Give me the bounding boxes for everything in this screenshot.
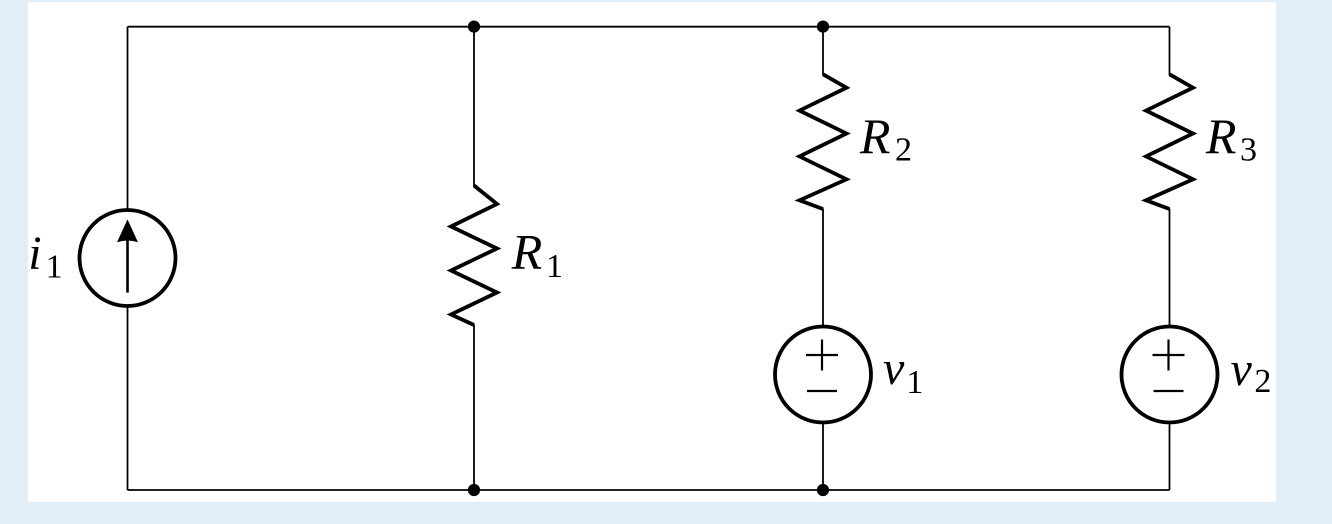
wire R1 branch upper (473, 27, 475, 186)
node bottom right (817, 484, 829, 496)
wire R1 branch lower (473, 325, 475, 491)
label v2 (1231, 343, 1272, 400)
current source i1 circle (80, 210, 176, 306)
current source i1 arrow (117, 219, 138, 292)
svg-text:i: i (28, 227, 41, 280)
node top left (468, 21, 480, 33)
voltage source v1 circle (775, 327, 871, 423)
wire left upper (127, 27, 129, 209)
wire bottom (128, 489, 1170, 491)
wire R2 branch upper (822, 27, 824, 75)
voltage source v2 minus (1154, 390, 1184, 392)
resistor R2 (800, 74, 847, 209)
svg-text:v: v (1231, 343, 1253, 396)
wire R2 to v1 (822, 209, 824, 326)
label i1 (28, 227, 62, 285)
svg-text:2: 2 (895, 132, 912, 169)
voltage source v1 plus (806, 340, 838, 371)
label R1 (511, 224, 563, 286)
svg-text:1: 1 (906, 364, 923, 401)
svg-text:v: v (883, 342, 905, 395)
wire R3 branch upper (1169, 27, 1171, 75)
svg-text:2: 2 (1254, 363, 1271, 400)
node top right (817, 21, 829, 33)
svg-text:1: 1 (46, 248, 63, 285)
voltage source v1 minus (807, 390, 837, 392)
label v1 (883, 342, 923, 401)
svg-text:3: 3 (1240, 132, 1257, 169)
label R2 (859, 108, 912, 169)
wire R3 to v2 (1169, 209, 1171, 326)
resistor R1 (451, 186, 497, 326)
voltage source v2 plus (1153, 340, 1185, 371)
svg-text:1: 1 (546, 248, 563, 285)
resistor R3 (1146, 74, 1193, 209)
node bottom left (468, 484, 480, 496)
wire top (128, 26, 1170, 28)
svg-text:R: R (511, 224, 543, 280)
wire v1 to bottom (822, 424, 824, 491)
wire v2 to bottom (1169, 424, 1171, 491)
label R3 (1205, 108, 1257, 169)
voltage source v2 circle (1122, 327, 1218, 423)
svg-text:R: R (859, 108, 891, 164)
wire left lower (127, 307, 129, 490)
svg-text:R: R (1205, 108, 1237, 164)
